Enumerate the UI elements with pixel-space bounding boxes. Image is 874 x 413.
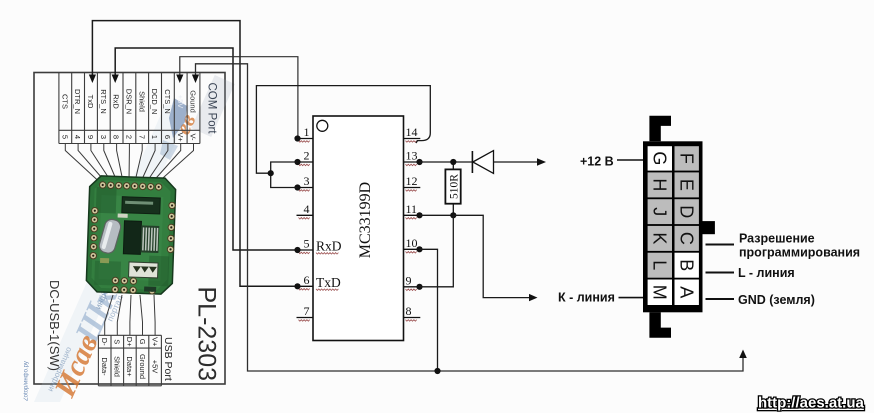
svg-text:V+: V+ bbox=[176, 132, 185, 142]
IC pin 11 bbox=[404, 214, 421, 216]
svg-text:2: 2 bbox=[125, 135, 134, 139]
svg-text:3: 3 bbox=[304, 174, 310, 188]
svg-text:4: 4 bbox=[73, 135, 82, 139]
connector cell C bbox=[675, 226, 699, 251]
PCB photo of PL-2303 adapter bbox=[86, 176, 176, 295]
wire K-line to connector M bbox=[619, 297, 645, 299]
svg-text:RTS_N: RTS_N bbox=[99, 89, 108, 113]
svg-text:6: 6 bbox=[163, 135, 172, 139]
connector right tab bbox=[702, 221, 715, 234]
svg-text:Data-: Data- bbox=[100, 357, 109, 376]
wire TxD COM column to IC pin 6 bbox=[92, 21, 296, 287]
OBD diagnostic connector shell bbox=[643, 141, 703, 312]
diode D1 bbox=[471, 151, 473, 173]
fan-out wires COM header to PCB bbox=[65, 144, 193, 182]
wire A cell to GND label bbox=[706, 298, 735, 300]
watermark stamp bbox=[24, 75, 235, 403]
IC pin 9 bbox=[404, 286, 421, 288]
svg-text:11: 11 bbox=[406, 202, 418, 216]
svg-text:V+: V+ bbox=[150, 337, 159, 347]
svg-text:S: S bbox=[113, 339, 122, 344]
wire Gound COM column to ground rail bbox=[196, 64, 744, 371]
svg-text:http://aes.at.ua: http://aes.at.ua bbox=[758, 395, 865, 412]
connector cell E bbox=[675, 172, 699, 197]
resistor 510R bbox=[452, 162, 454, 169]
IC pin 7 bbox=[297, 317, 314, 319]
svg-text:G: G bbox=[138, 339, 147, 345]
svg-text:8: 8 bbox=[112, 135, 121, 139]
svg-text:7: 7 bbox=[137, 135, 146, 139]
IC pin 2 bbox=[297, 161, 314, 163]
connector cell J bbox=[648, 199, 672, 224]
wire RxD COM column to IC pin 5 bbox=[115, 48, 296, 250]
svg-text:14: 14 bbox=[406, 125, 418, 139]
svg-text:программирования: программирования bbox=[739, 245, 860, 259]
wire +12V to connector G bbox=[617, 159, 644, 161]
svg-text:12: 12 bbox=[406, 174, 418, 188]
IC pin 12 bbox=[404, 187, 421, 189]
IC pin 6 bbox=[297, 285, 314, 287]
svg-text:8: 8 bbox=[406, 304, 412, 318]
svg-text:MC33199D: MC33199D bbox=[357, 182, 374, 258]
svg-text:D-: D- bbox=[100, 338, 109, 346]
svg-text:K: K bbox=[650, 232, 670, 244]
svg-text:5: 5 bbox=[304, 237, 310, 251]
svg-text:PL-2303: PL-2303 bbox=[193, 287, 221, 382]
connector cell K bbox=[648, 226, 672, 251]
svg-text:RxD: RxD bbox=[316, 239, 342, 254]
svg-text:L - линия: L - линия bbox=[738, 266, 795, 280]
wire pin 10 to ground rail bbox=[420, 249, 438, 371]
connector cell F bbox=[675, 146, 699, 170]
connector cell B bbox=[675, 253, 699, 278]
node junction C (pin10/ground rail) bbox=[434, 368, 440, 374]
svg-text:CTS: CTS bbox=[60, 94, 69, 109]
connector cell H bbox=[648, 172, 672, 197]
connector cell D bbox=[675, 199, 699, 224]
svg-text:RxD: RxD bbox=[112, 94, 121, 109]
svg-text:H: H bbox=[650, 178, 670, 191]
svg-text:10: 10 bbox=[406, 236, 418, 250]
svg-text:TxD: TxD bbox=[316, 275, 341, 290]
svg-text:V-: V- bbox=[189, 133, 198, 141]
wire pin 13 to diode bbox=[420, 161, 473, 163]
svg-text:J: J bbox=[650, 207, 670, 216]
USB port pin header bbox=[98, 335, 161, 386]
svg-text:G: G bbox=[650, 151, 670, 165]
IC pin 8 bbox=[404, 317, 421, 319]
svg-text:E: E bbox=[676, 179, 696, 191]
svg-text:DSR_N: DSR_N bbox=[125, 89, 134, 114]
connector cell A bbox=[675, 280, 699, 306]
svg-text:DC-USB-1(SW): DC-USB-1(SW) bbox=[47, 280, 62, 371]
svg-text:CTS_N: CTS_N bbox=[163, 89, 172, 114]
svg-text:D: D bbox=[676, 205, 696, 218]
svg-text:Data+: Data+ bbox=[125, 356, 134, 377]
IC pin 10 bbox=[404, 248, 421, 250]
svg-text:1: 1 bbox=[304, 125, 310, 139]
svg-text:B: B bbox=[676, 259, 696, 271]
svg-text:F: F bbox=[676, 153, 696, 164]
svg-text:L: L bbox=[650, 260, 670, 270]
svg-text:D+: D+ bbox=[125, 337, 134, 347]
svg-text:К - линия: К - линия bbox=[558, 291, 615, 305]
connector top tab bbox=[649, 116, 671, 142]
svg-text:A: A bbox=[676, 286, 696, 298]
svg-text:M: M bbox=[650, 285, 670, 300]
svg-text:3: 3 bbox=[99, 135, 108, 139]
wire diode to +12V bbox=[494, 161, 539, 163]
op IC U1 MC33199D body bbox=[313, 116, 404, 341]
svg-text:C: C bbox=[676, 232, 696, 245]
svg-text:USB Port: USB Port bbox=[162, 337, 174, 381]
svg-text:+5V: +5V bbox=[176, 95, 185, 109]
svg-text:7: 7 bbox=[304, 304, 310, 318]
arrow to connector shell (ground) bbox=[739, 350, 747, 359]
IC pin 14 bbox=[404, 138, 421, 140]
svg-text:COM Port: COM Port bbox=[206, 83, 218, 135]
fan-out wires PCB to USB header bbox=[105, 295, 155, 335]
wire junction B to K-line bbox=[453, 215, 529, 297]
svg-text:6: 6 bbox=[304, 273, 310, 287]
node junction B (pin11/pin9/resistor) bbox=[450, 212, 456, 218]
IC pin 4 bbox=[297, 214, 314, 216]
svg-text:Shield: Shield bbox=[137, 91, 146, 112]
svg-text:510R: 510R bbox=[448, 174, 460, 199]
IC pin 1 bbox=[297, 138, 314, 140]
COM port pin header bbox=[59, 73, 200, 144]
svg-text:9: 9 bbox=[406, 273, 412, 287]
wire pin 9 to junction B bbox=[420, 215, 454, 286]
wire C cell to programming-enable label bbox=[706, 244, 735, 246]
IC pin-1 marker circle bbox=[317, 120, 328, 131]
svg-text:5: 5 bbox=[60, 135, 69, 139]
connector bottom tab bbox=[649, 312, 671, 338]
IC pin 13 bbox=[404, 161, 421, 163]
svg-text:13: 13 bbox=[406, 149, 418, 163]
svg-text:Разрешение: Разрешение bbox=[739, 232, 815, 246]
svg-text:Ground: Ground bbox=[138, 354, 147, 379]
IC pin 3 bbox=[297, 187, 314, 189]
connector cell G bbox=[648, 146, 672, 170]
svg-text:Gound: Gound bbox=[189, 90, 198, 113]
node junction A (pin13/resistor) bbox=[450, 159, 456, 165]
svg-text:9: 9 bbox=[86, 135, 95, 139]
svg-text:GND (земля): GND (земля) bbox=[738, 293, 815, 307]
svg-text:+5V: +5V bbox=[150, 360, 159, 374]
IC pin 5 bbox=[297, 249, 314, 251]
svg-text:Zotop/инфо.ру: Zotop/инфо.ру bbox=[24, 361, 30, 401]
wire pin 11 to junction B bbox=[420, 214, 454, 216]
svg-text:Shield: Shield bbox=[113, 356, 122, 377]
svg-text:2: 2 bbox=[304, 149, 310, 163]
connector cell M bbox=[648, 280, 672, 306]
svg-text:DCD_N: DCD_N bbox=[150, 89, 159, 115]
PL-2303 adapter box bbox=[34, 73, 225, 385]
wire B cell to L-line label bbox=[706, 272, 735, 274]
svg-text:TxD: TxD bbox=[86, 95, 95, 109]
svg-text:4: 4 bbox=[304, 202, 310, 216]
svg-text:+12 В: +12 В bbox=[580, 155, 614, 169]
svg-text:DTR_N: DTR_N bbox=[73, 89, 82, 114]
wire +5V COM column to IC pin 1 bbox=[180, 57, 298, 139]
wire pins 2+3 to pin 14 bbox=[271, 162, 298, 188]
connector cell L bbox=[648, 253, 672, 278]
svg-text:1: 1 bbox=[150, 135, 159, 139]
node pins 2/3 junction bbox=[268, 170, 274, 176]
